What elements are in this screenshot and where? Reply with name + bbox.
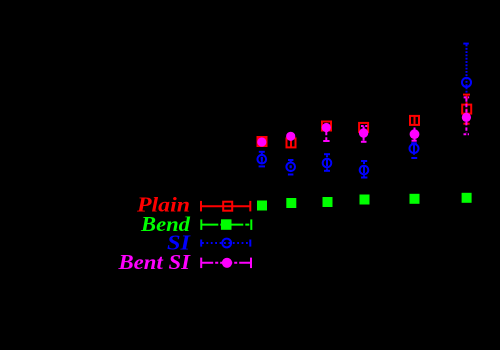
- svg-text:Bent SI: Bent SI: [117, 250, 190, 274]
